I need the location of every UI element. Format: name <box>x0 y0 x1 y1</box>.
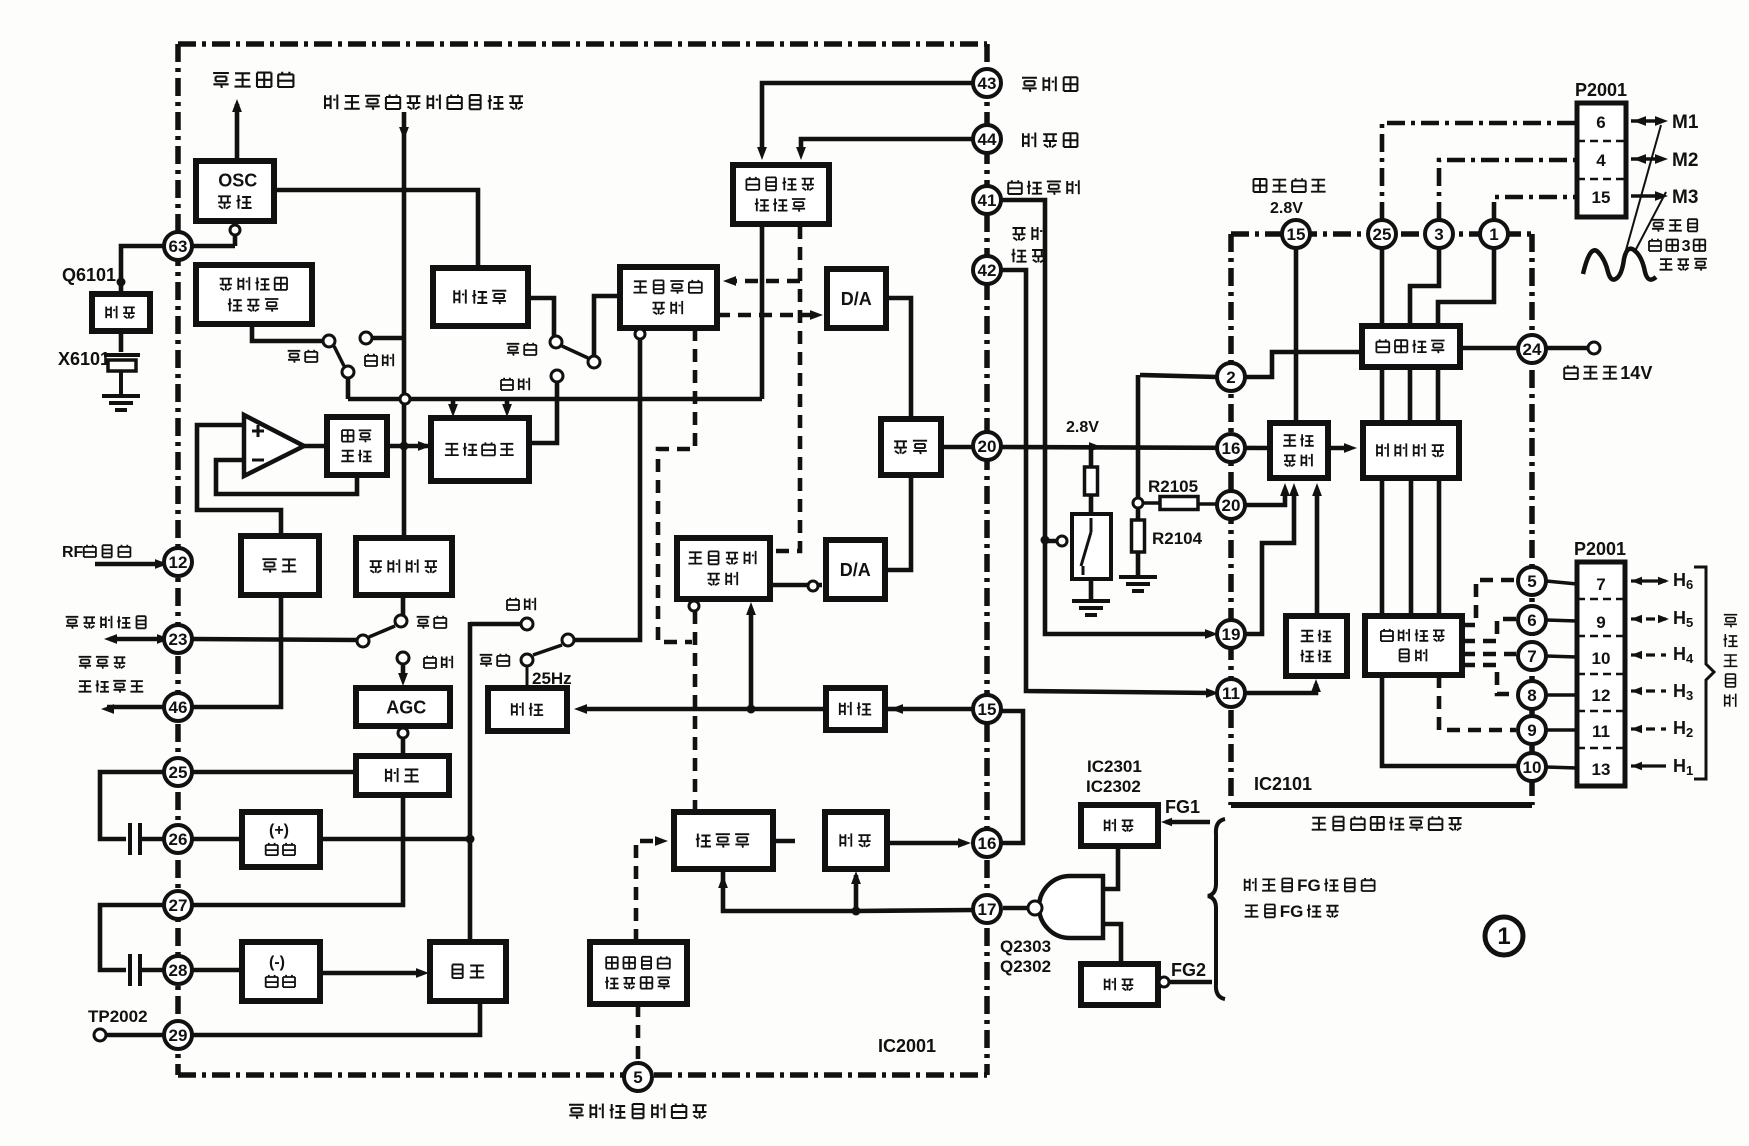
svg-text:X6101: X6101 <box>58 349 110 369</box>
wire connector to H2 <box>1631 727 1666 730</box>
block amplifier Q6101 <box>92 294 150 331</box>
label capstan FG signal <box>1245 902 1339 921</box>
arrowhead into connector H1 <box>1631 762 1642 770</box>
svg-text:28: 28 <box>169 961 188 980</box>
junction circle bus / drum-phase line <box>400 394 410 404</box>
svg-text:9: 9 <box>1596 613 1605 632</box>
wire pin15 down to torque control <box>1294 248 1299 423</box>
junction Q6101 base <box>117 278 126 287</box>
wire junction to pin 17 <box>856 910 975 911</box>
pin 26 IC2001 left <box>164 825 192 853</box>
wire pin15 to pin16 link <box>1001 711 1023 843</box>
wire pin43 data string to decoder <box>762 83 973 152</box>
arrowhead left to control head <box>104 634 117 644</box>
label signal(2) <box>1012 249 1045 263</box>
arrowhead into capstan speed control bottom <box>746 602 756 615</box>
wire NAND input a to FG1 amp <box>1103 846 1118 889</box>
wire pin1 chain to connector pin 15 <box>1494 197 1575 220</box>
arrowhead into decoder left input <box>757 147 767 160</box>
pin 15 IC2001 right <box>973 695 1001 723</box>
label M1 <box>1672 112 1699 133</box>
wire position processor to pin 9 <box>1439 675 1516 730</box>
svg-text:5: 5 <box>633 1068 642 1087</box>
coil indicator diagonals <box>1626 125 1666 253</box>
resistor R2105 <box>1160 497 1198 510</box>
pin 19 IC2101 left <box>1217 620 1245 648</box>
arrowhead back M2 <box>1633 154 1646 164</box>
wire pin to connector cell 9-11 <box>1546 728 1577 732</box>
switch SW4 playback contact <box>521 618 533 630</box>
junction circle R2105 <box>1133 498 1143 508</box>
svg-text:7: 7 <box>1527 647 1536 666</box>
block capstan phase control <box>620 267 717 328</box>
pin 20 IC2101 left <box>1217 491 1245 519</box>
arrowhead into decoder right input <box>796 147 806 160</box>
svg-text:42: 42 <box>978 261 997 280</box>
wire pin2 left branch <box>1140 375 1217 377</box>
block D/A converter lower <box>826 540 885 599</box>
wire pin41 current limit to pin 19 IC2101 <box>1001 200 1211 634</box>
connector P2001 (top, to capstan motor coils) <box>1577 103 1626 217</box>
wire torque direction to torque control <box>1315 489 1320 616</box>
wire pin25 loop to capacitor C1 <box>100 772 164 839</box>
junction clamp(+) / playback line <box>466 835 475 844</box>
wire RF envelope input <box>95 562 162 567</box>
svg-text:RF: RF <box>62 544 84 561</box>
label Q2302 <box>1000 957 1051 976</box>
resistor upper (bias) <box>1085 467 1098 495</box>
svg-text:24: 24 <box>1523 340 1542 359</box>
label X6101 <box>58 349 110 369</box>
arrowhead into bistable <box>416 968 429 978</box>
wire connector to H4 <box>1631 653 1666 656</box>
block counter <box>674 812 773 869</box>
svg-text:M1: M1 <box>1672 112 1699 133</box>
wire pin to connector cell 10-13 <box>1546 767 1577 768</box>
pin 25 IC2101 top <box>1368 220 1396 248</box>
label Q6101 <box>62 265 116 285</box>
switch SW3 blade <box>369 626 395 637</box>
block frequency divider <box>433 268 528 326</box>
wire playback vertical to bistable top <box>468 622 473 942</box>
block differential amplifier <box>1363 423 1459 478</box>
svg-text:16: 16 <box>1222 439 1241 458</box>
wire playback contact stub SW1 <box>370 336 404 341</box>
svg-text:FG1: FG1 <box>1165 797 1200 817</box>
wire connector to H3 <box>1631 689 1666 692</box>
block motor drive <box>1362 326 1460 367</box>
pin 44 IC2001 right <box>973 125 1001 153</box>
arrowhead into pin 19 <box>1205 629 1218 639</box>
junction circle below capstan speed control <box>689 601 699 611</box>
wire SW2 pole to capstan phase control <box>594 296 620 356</box>
wire pin25 chain to connector pin 6 <box>1382 123 1575 220</box>
junction switch box feed <box>1041 536 1050 545</box>
pin 8 IC2101 right <box>1518 681 1546 709</box>
wire capacitor C2 to pin 28 <box>140 968 164 973</box>
label to drum servo <box>213 72 293 88</box>
wire counter bottom feedback <box>723 869 852 911</box>
arrowhead into diff amp <box>1344 443 1357 453</box>
wire motor drive to diff amp b <box>1408 367 1413 423</box>
ground X6101 <box>102 396 140 410</box>
block AGC <box>356 688 450 726</box>
wire pin28 to clamp(-) <box>192 968 242 973</box>
wire SW4 playback contact to clamp line <box>470 622 521 627</box>
arrowhead into connector H3 <box>1631 687 1642 695</box>
arrowhead M2 <box>1655 154 1668 164</box>
wire IC2101 boundary bottom <box>1231 802 1532 808</box>
svg-text:15: 15 <box>1592 188 1611 207</box>
svg-text:11: 11 <box>1592 722 1610 741</box>
svg-text:7: 7 <box>1596 575 1605 594</box>
arrowhead into FG1 amp <box>1161 818 1172 826</box>
svg-text:D/A: D/A <box>841 289 872 309</box>
svg-text:46: 46 <box>169 698 188 717</box>
junction circle below capstan phase control <box>635 329 645 339</box>
wire diff amp to position processor b <box>1409 478 1414 616</box>
wire IC2101 boundary left (chain) <box>1228 234 1234 805</box>
label reference voltage <box>1254 178 1326 192</box>
wire IC2101 boundary top (chain) <box>1231 231 1532 237</box>
pin 28 IC2001 left <box>164 956 192 984</box>
svg-text:R2105: R2105 <box>1148 477 1198 496</box>
label IC2301 <box>1087 757 1142 776</box>
svg-text:12: 12 <box>1592 686 1611 705</box>
wire pin20 2.8V bus to torque control <box>1001 447 1270 448</box>
svg-text:26: 26 <box>169 830 188 849</box>
label M2 <box>1672 150 1698 171</box>
label to drum assembly (vertical) <box>1724 615 1737 628</box>
circled figure number 1 <box>1485 917 1523 955</box>
wire position processor dashed to pin 8 <box>1462 665 1516 694</box>
arrowhead into connector H2 <box>1631 725 1642 733</box>
label RF envelope in <box>62 544 130 561</box>
arrowhead into tracking monostable top left <box>448 404 458 417</box>
pin 16 IC2101 left <box>1217 434 1245 462</box>
arrowhead back M1 <box>1633 116 1646 126</box>
arrowhead into counter left <box>655 836 668 846</box>
switch SW2 blade <box>562 346 588 358</box>
wire pin2 branch down to R2105/R2104 <box>1136 375 1141 498</box>
svg-text:2.8V: 2.8V <box>1066 419 1099 436</box>
svg-text:63: 63 <box>169 237 188 256</box>
wire resistor to switch box <box>1089 495 1094 514</box>
pin 20 IC2001 right <box>973 432 1001 460</box>
wire pseudo-field-sync dashed to counter <box>636 841 661 942</box>
switch box (mode switch) <box>1072 514 1111 579</box>
wire pin29 to bistable bottom <box>192 1001 480 1035</box>
svg-text:Q6101: Q6101 <box>62 265 116 285</box>
wire pin to connector cell 6-9 <box>1546 620 1577 621</box>
label current limit <box>1008 180 1079 195</box>
block tracking monostable <box>431 418 529 481</box>
svg-text:IC2101: IC2101 <box>1254 774 1312 794</box>
pin 42 IC2001 right <box>973 256 1001 284</box>
svg-text:IC2301: IC2301 <box>1087 757 1142 776</box>
switch SW3 playback contact <box>397 652 409 664</box>
switch SW1 blade <box>334 346 344 366</box>
label to control head <box>66 616 146 629</box>
wire position processor dashed to pin 7 <box>1462 652 1516 657</box>
pin 5 IC2001 bottom <box>624 1063 652 1091</box>
wire bus drop to tracking monostable right input <box>505 399 510 411</box>
label Q2303 <box>1000 937 1051 956</box>
wire FG2 input <box>1170 980 1212 985</box>
wire IC2001 boundary right (chain) <box>984 44 990 1075</box>
svg-text:20: 20 <box>1222 496 1241 515</box>
pin 24 IC2101 right <box>1518 335 1546 363</box>
arrowhead into tracking monostable <box>418 441 431 451</box>
svg-text:D/A: D/A <box>840 560 871 580</box>
block pseudo field sync generator <box>590 942 687 1004</box>
wire pin19 to torque control bottom <box>1245 489 1294 634</box>
block bistable <box>430 942 506 1001</box>
switch SW4 blade <box>533 645 562 655</box>
wire D/A lower to mixer bottom <box>885 475 911 570</box>
pin 1 IC2101 top <box>1480 220 1508 248</box>
NAND output bubble <box>1028 901 1042 915</box>
wire pin to connector cell 5-7 <box>1546 581 1577 584</box>
label R2104 <box>1152 529 1203 548</box>
wire node 63 to OSC <box>192 244 235 249</box>
svg-text:2: 2 <box>1226 368 1235 387</box>
arrowhead out H6 <box>1658 577 1669 585</box>
arrowhead to drum servo <box>232 99 242 112</box>
pin 5 IC2101 right <box>1518 567 1546 595</box>
svg-text:5: 5 <box>1527 572 1536 591</box>
wire junction down to R2104 <box>1136 508 1141 520</box>
pin 9 IC2101 right <box>1518 716 1546 744</box>
label unregulated 14V <box>1564 363 1652 383</box>
wire connector to M3 <box>1631 194 1663 198</box>
wire up to amplifier bottom <box>854 875 859 911</box>
label data string <box>1022 77 1077 92</box>
wire SW2 playback contact to tracking monostable right side <box>532 382 557 443</box>
wire pin2 to motor drive <box>1245 352 1362 377</box>
wire OSC to divider <box>274 190 478 268</box>
label TP2002 <box>88 1007 148 1026</box>
label to capstan(1) <box>1652 219 1698 232</box>
arrowhead into tracking monostable top right <box>502 404 512 417</box>
pin 16 IC2001 right <box>973 829 1001 857</box>
resistor R2104 <box>1132 520 1145 552</box>
wire torque control to diff amp <box>1328 446 1350 451</box>
label 2.8V ref <box>1270 200 1303 217</box>
wire switch box to ground <box>1089 579 1094 600</box>
wire decoder dashed to capstan phase control <box>729 279 800 284</box>
wire capstan phase control to SW4 pole <box>574 339 640 640</box>
svg-text:14V: 14V <box>1620 363 1652 383</box>
switch SW1 pole <box>342 366 354 378</box>
label main coils(3) <box>1660 259 1707 271</box>
svg-text:3: 3 <box>1682 238 1691 255</box>
svg-text:9: 9 <box>1527 721 1536 740</box>
pin 7 IC2101 right <box>1518 642 1546 670</box>
svg-text:(-): (-) <box>269 954 285 971</box>
svg-text:23: 23 <box>169 630 188 649</box>
switch SW4 record contact <box>521 654 533 666</box>
block FG1 amplifier <box>1081 805 1158 846</box>
terminal unregulated 14V <box>1588 342 1600 354</box>
wire bus up to capstan speed control <box>749 608 754 709</box>
wire pin25 down to motor drive <box>1380 248 1385 326</box>
wire capacitor C1 to pin 26 <box>140 837 164 842</box>
wire diff amp to position processor c <box>1437 478 1442 616</box>
wire bus down to resistor <box>1089 447 1094 467</box>
wire connector to M2 <box>1631 157 1663 161</box>
wire pseudo-field-sync dashed to pin 5 <box>636 1004 641 1062</box>
svg-text:IC2302: IC2302 <box>1086 777 1141 796</box>
switch SW4 pole <box>562 634 574 646</box>
label record SW3 <box>417 616 447 629</box>
wire connector to M1 <box>1631 119 1663 123</box>
NAND gate Q2303/Q2302 <box>1039 876 1103 938</box>
svg-text:25Hz: 25Hz <box>532 669 572 688</box>
wire pin27 loop to capacitor C2 <box>100 905 164 970</box>
wire pin25 to separator <box>192 770 356 775</box>
svg-text:IC2001: IC2001 <box>878 1036 936 1056</box>
label IC2302 <box>1086 777 1141 796</box>
wire OSC bottom to node 63 <box>233 221 238 246</box>
svg-text:(+): (+) <box>269 822 289 839</box>
arrowhead into D/A upper <box>810 310 823 320</box>
wire position processor dashed to pin 5 <box>1462 580 1516 625</box>
junction speed control feed <box>747 705 756 714</box>
wire feedback auto tracking to op-amp inverting input <box>216 460 357 494</box>
wire amplifier to pin 16 <box>887 841 965 846</box>
wire position processor to pin 10 <box>1382 675 1518 766</box>
wire pin23 to SW3 pole <box>192 639 357 640</box>
svg-text:2.8V: 2.8V <box>1270 200 1303 217</box>
terminal TP2002 <box>94 1029 106 1041</box>
wire counter output stub <box>773 839 795 844</box>
arrowhead into torque control bottom a <box>1280 483 1290 496</box>
svg-text:27: 27 <box>169 896 188 915</box>
svg-text:4: 4 <box>1596 151 1606 170</box>
switch SW1 playback contact <box>360 332 372 344</box>
svg-text:FG: FG <box>1297 876 1321 895</box>
label from capstan FG head <box>1245 876 1375 895</box>
block auto tracking <box>327 417 387 475</box>
arrowhead into pin 12 <box>155 559 168 569</box>
svg-text:FG: FG <box>1280 902 1304 921</box>
wire control amp output to SW3 record contact <box>401 595 406 615</box>
label P2001 top <box>1575 80 1627 100</box>
wire capstan speed control to D/A lower <box>770 583 822 588</box>
wire position processor dashed to pin 6 <box>1462 619 1516 641</box>
switch SW3 pole <box>357 635 369 647</box>
block amplifier mid <box>825 812 887 869</box>
wire connector to H1 <box>1631 764 1666 767</box>
junction circle at switch box <box>1057 536 1067 546</box>
wire op-amp output to auto tracking <box>304 444 327 449</box>
arrowhead into capstan phase control <box>723 276 736 286</box>
wire SW3 playback contact to AGC <box>401 664 406 680</box>
label 25Hz <box>532 669 572 688</box>
wire control pulse generator to record contact <box>252 324 322 341</box>
svg-text:3: 3 <box>1434 225 1443 244</box>
svg-text:11: 11 <box>1222 684 1240 703</box>
wire pin17 to NAND output <box>1003 906 1028 911</box>
arrowhead downward on drum phase signal <box>399 127 409 140</box>
svg-text:6: 6 <box>1527 611 1536 630</box>
arrowhead into AGC <box>398 673 408 686</box>
wire SW1 pole down to bus <box>346 378 351 399</box>
pin 6 IC2101 right <box>1518 606 1546 634</box>
block control amplifier <box>356 538 452 595</box>
capacitor C2 <box>130 954 140 986</box>
junction auto-tracking wire / drum phase line <box>400 442 409 451</box>
pin 10 IC2101 right <box>1518 753 1546 781</box>
pin 23 IC2001 left <box>164 625 192 653</box>
arrowhead into divider right block <box>890 704 903 714</box>
capacitor C1 <box>130 823 140 855</box>
block 25Hz divider <box>488 688 567 731</box>
label control(1) <box>1013 226 1044 240</box>
arrowhead into connector H4 <box>1631 651 1642 659</box>
pin 46 IC2001 left <box>164 693 192 721</box>
svg-text:15: 15 <box>978 700 997 719</box>
block D/A converter upper <box>827 269 886 328</box>
block position signal processor <box>1365 616 1462 675</box>
pin 2 IC2101 left <box>1217 363 1245 391</box>
svg-text:1: 1 <box>1497 923 1510 950</box>
wire pin to connector cell 7-10 <box>1546 656 1577 657</box>
wire IC2001 boundary bottom (chain) <box>178 1072 987 1078</box>
switch SW2 record contact <box>550 336 562 348</box>
wire R2104 to ground <box>1136 552 1141 576</box>
switch SW2 playback contact <box>551 370 563 382</box>
wire into divider right <box>885 707 896 712</box>
wire IC2001 boundary left (chain) <box>175 44 181 1075</box>
wire clamp(-) to bistable <box>320 971 422 976</box>
block torque control <box>1270 423 1328 478</box>
block separator <box>356 756 449 795</box>
wire amp to crystal X6101 <box>119 331 124 352</box>
wire op-amp non-inverting input to detector <box>197 425 281 534</box>
block FG2 amplifier <box>1081 964 1158 1005</box>
wire mixer output to pin 20 <box>941 445 973 450</box>
svg-text:10: 10 <box>1523 758 1542 777</box>
bracket head-group <box>1694 567 1714 779</box>
arrowhead into connector H5 <box>1631 615 1642 623</box>
wire diff amp to position processor a <box>1380 478 1385 616</box>
wire junction to R2105 <box>1143 501 1160 505</box>
wire pin1 down to motor drive <box>1438 248 1494 326</box>
wire NAND input b to FG2 amp <box>1103 924 1121 964</box>
wire decoder dashed to capstan speed control <box>774 226 800 551</box>
wire capstan phase control dashed to D/A <box>717 313 816 318</box>
switch SW3 record contact <box>395 615 407 627</box>
svg-text:25: 25 <box>1373 225 1392 244</box>
arrowhead into 25Hz divider <box>574 704 587 714</box>
svg-text:44: 44 <box>978 130 997 149</box>
label P2001 bottom <box>1574 539 1626 559</box>
wire pin3 chain to connector pin 4 <box>1439 160 1575 220</box>
arrowhead M1 <box>1655 116 1668 126</box>
pin 25 IC2001 left <box>164 758 192 786</box>
label playback SW1 <box>365 354 393 367</box>
block positive clamp <box>242 812 320 867</box>
pin 63 IC2001 left <box>164 232 192 260</box>
wire connector to H6 <box>1631 579 1666 582</box>
wire pin42 control signal to pin 11 IC2101 <box>1001 270 1213 693</box>
block capstan speed control <box>677 538 770 599</box>
brace FG signals <box>1208 819 1225 999</box>
arrowhead into connector H6 <box>1631 577 1642 585</box>
wire mode bus y399 <box>348 397 762 402</box>
